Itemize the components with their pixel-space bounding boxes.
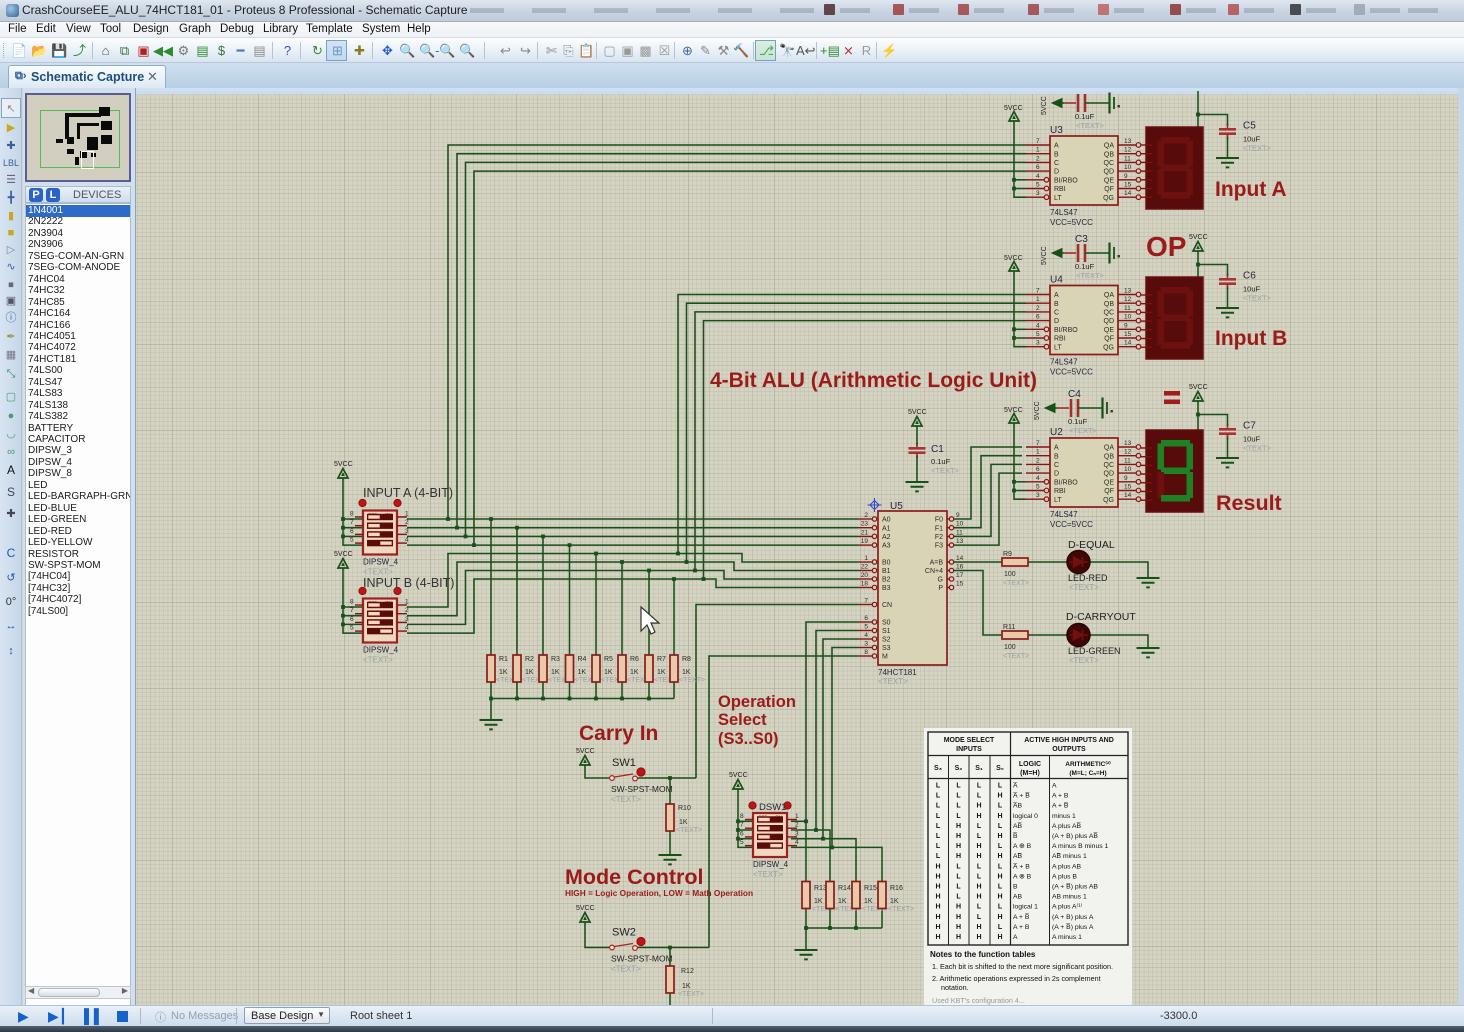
- svg-text:5VCC: 5VCC: [1189, 234, 1208, 241]
- svg-text:L: L: [977, 823, 982, 830]
- junction: [1012, 178, 1016, 182]
- junction: [594, 552, 598, 556]
- wire SW2 right: [636, 947, 709, 949]
- resistor R11 100: [1002, 624, 1029, 660]
- wire ls47 rail 426: [1014, 426, 1026, 499]
- svg-text:U5: U5: [890, 501, 903, 512]
- svg-text:L: L: [956, 793, 961, 800]
- svg-text:B3: B3: [882, 585, 891, 592]
- svg-text:QD: QD: [1104, 318, 1115, 325]
- DIP switch DSW1: [740, 802, 799, 879]
- svg-text:4: 4: [1036, 173, 1040, 180]
- svg-text:DIPSW_4: DIPSW_4: [363, 646, 399, 655]
- svg-text:Carry In: Carry In: [579, 722, 658, 745]
- svg-text:5: 5: [350, 625, 354, 632]
- svg-text:QD: QD: [1104, 169, 1115, 176]
- wire F2: [953, 464, 1022, 536]
- svg-text:13: 13: [1124, 138, 1132, 145]
- ground: [1137, 578, 1160, 587]
- svg-text:D: D: [1054, 471, 1059, 478]
- svg-text:16: 16: [956, 564, 964, 571]
- svg-text:H: H: [976, 884, 981, 891]
- svg-text:B0: B0: [882, 560, 891, 567]
- svg-text:<TEXT>: <TEXT>: [1076, 271, 1105, 280]
- svg-text:Result: Result: [1216, 491, 1282, 515]
- svg-text:11: 11: [956, 529, 963, 536]
- svg-text:74HCT181: 74HCT181: [878, 668, 917, 677]
- svg-text:5VCC: 5VCC: [1189, 384, 1208, 391]
- svg-text:0.1uF: 0.1uF: [1068, 417, 1088, 426]
- svg-text:C: C: [1054, 160, 1059, 167]
- svg-text:QC: QC: [1104, 310, 1115, 317]
- wire A4 row: [407, 544, 858, 546]
- svg-text:A3: A3: [882, 543, 891, 550]
- junction: [1012, 480, 1016, 484]
- svg-text:15: 15: [1124, 331, 1132, 338]
- svg-text:RBI: RBI: [1054, 488, 1066, 495]
- svg-text:A ⊗ B: A ⊗ B: [1013, 873, 1032, 880]
- wire r bottom 649: [648, 682, 650, 699]
- svg-text:5: 5: [740, 839, 744, 846]
- svg-text:R16: R16: [890, 885, 903, 892]
- svg-text:L: L: [998, 803, 1003, 810]
- BCD decoder U2 (74LS47): [1026, 427, 1141, 529]
- svg-text:11: 11: [1124, 457, 1131, 464]
- svg-text:S1: S1: [882, 628, 891, 635]
- wire B0 to U4: [678, 295, 1026, 554]
- svg-text:RBI: RBI: [1054, 186, 1066, 193]
- svg-text:<TEXT>: <TEXT>: [678, 991, 704, 998]
- svg-text:74LS47: 74LS47: [1050, 208, 1078, 217]
- wire A1 row: [407, 518, 858, 520]
- svg-text:QC: QC: [1104, 462, 1115, 469]
- svg-text:7: 7: [864, 598, 868, 605]
- svg-text:10: 10: [956, 521, 964, 528]
- junction: [455, 526, 459, 530]
- junction: [828, 926, 832, 930]
- svg-text:R10: R10: [678, 805, 691, 812]
- svg-text:B: B: [1054, 453, 1059, 460]
- wire ls47 rail 273.7: [1014, 274, 1026, 347]
- svg-text:SW1: SW1: [612, 757, 636, 769]
- svg-text:L: L: [977, 833, 982, 840]
- switch SW2 (SW-SPST-MOM): [610, 927, 673, 974]
- capacitor C4 decoupling: [1034, 389, 1113, 435]
- wire cap branch 264.5: [1198, 265, 1228, 277]
- svg-text:A̅: A̅: [1013, 782, 1018, 790]
- svg-text:H: H: [976, 803, 981, 810]
- svg-text:BI/RBO: BI/RBO: [1054, 479, 1078, 486]
- svg-text:1K: 1K: [604, 669, 613, 676]
- power 5VCC: [1009, 262, 1019, 275]
- svg-text:A: A: [1013, 934, 1018, 941]
- svg-text:H: H: [997, 813, 1002, 820]
- wire disp feed 114.5: [1197, 91, 1199, 127]
- resistor R10 1K: [666, 804, 702, 834]
- svg-text:15: 15: [1124, 182, 1132, 189]
- svg-text:A minus B minus 1: A minus B minus 1: [1052, 843, 1109, 850]
- wire DIPA stub 536.4: [343, 535, 363, 537]
- wire R bank bus: [490, 682, 492, 699]
- svg-text:H: H: [997, 873, 1002, 880]
- resistor R15 1K: [852, 882, 888, 914]
- svg-text:1: 1: [1036, 147, 1040, 154]
- svg-text:14: 14: [1124, 190, 1132, 197]
- resistor R4 1K: [566, 655, 601, 684]
- ground: [906, 482, 929, 491]
- junction: [736, 837, 740, 841]
- junction: [668, 776, 672, 780]
- svg-text:LT: LT: [1054, 195, 1062, 202]
- svg-text:C1: C1: [931, 444, 944, 455]
- svg-text:19: 19: [861, 538, 869, 545]
- junction: [594, 697, 598, 701]
- svg-text:Notes to the function tables: Notes to the function tables: [930, 950, 1036, 959]
- svg-text:1K: 1K: [814, 898, 823, 905]
- svg-text:QA: QA: [1104, 445, 1114, 452]
- svg-text:S₀: S₀: [996, 765, 1004, 772]
- svg-text:DIPSW_4: DIPSW_4: [363, 558, 399, 567]
- svg-text:2: 2: [405, 519, 409, 526]
- svg-text:DSW1: DSW1: [759, 802, 786, 813]
- wire F1: [953, 456, 1022, 528]
- svg-text:3: 3: [405, 528, 409, 535]
- svg-text:12: 12: [1124, 147, 1132, 154]
- power 5VCC: [338, 559, 348, 572]
- wire R7 pulldown: [648, 571, 650, 656]
- svg-text:R12: R12: [681, 968, 694, 975]
- junction: [464, 535, 468, 539]
- svg-text:R8: R8: [682, 656, 691, 663]
- wire R1 pulldown: [490, 519, 492, 655]
- svg-text:L: L: [977, 914, 982, 921]
- svg-text:R11: R11: [1003, 624, 1015, 631]
- resistor R13 1K: [802, 882, 838, 914]
- junction: [515, 526, 519, 530]
- wire DSW stub 821.3: [738, 820, 753, 822]
- svg-text:S3: S3: [882, 645, 891, 652]
- svg-text:11: 11: [1124, 305, 1131, 312]
- wire R8 pulldown: [673, 579, 675, 655]
- resistor R14 1K: [826, 882, 862, 914]
- svg-text:10uF: 10uF: [1243, 135, 1261, 144]
- 7-segment display Result display: [1141, 430, 1203, 512]
- svg-text:L: L: [936, 833, 941, 840]
- svg-text:1K: 1K: [630, 669, 639, 676]
- ground: [1216, 458, 1239, 467]
- svg-text:<TEXT>: <TEXT>: [1243, 294, 1272, 303]
- svg-text:H: H: [935, 863, 940, 870]
- svg-text:A2: A2: [882, 534, 891, 541]
- wire DIPA rail: [343, 481, 363, 545]
- svg-text:OP: OP: [1146, 231, 1186, 262]
- junction: [341, 526, 345, 530]
- svg-text:AB: AB: [1013, 894, 1023, 901]
- svg-text:11: 11: [1124, 155, 1131, 162]
- power 5VCC: [1193, 242, 1203, 255]
- svg-text:A=B: A=B: [930, 560, 944, 567]
- svg-text:4: 4: [405, 625, 409, 632]
- svg-text:7: 7: [1036, 440, 1040, 447]
- wire B0 route: [407, 554, 858, 608]
- svg-text:A + B̅: A + B̅: [1013, 913, 1030, 921]
- wire r bottom 622: [621, 682, 623, 699]
- power 5VCC: [1193, 392, 1203, 405]
- wire CN4: [953, 571, 1002, 636]
- svg-text:C: C: [1054, 310, 1059, 317]
- svg-text:H: H: [935, 934, 940, 941]
- svg-text:<TEXT>: <TEXT>: [1243, 144, 1272, 153]
- junction: [1196, 263, 1200, 267]
- ALU U5 (74HCT181): [858, 498, 964, 686]
- wire disp feed 264.5: [1197, 254, 1199, 277]
- wire cap gnd 414.5: [1227, 435, 1229, 458]
- svg-text:15: 15: [956, 581, 964, 588]
- svg-text:L: L: [956, 884, 961, 891]
- wire A3 row: [407, 535, 858, 537]
- wire B1 route: [407, 562, 858, 616]
- svg-text:1K: 1K: [682, 983, 691, 990]
- svg-text:6: 6: [350, 528, 354, 535]
- wire B1 to U4: [687, 303, 1027, 562]
- svg-text:Input A: Input A: [1215, 178, 1287, 201]
- wire DSW stub 830: [738, 829, 753, 831]
- resistor R16 1K: [878, 882, 914, 914]
- svg-text:7: 7: [350, 519, 354, 526]
- svg-text:4: 4: [795, 839, 799, 846]
- wire R bus: [491, 698, 674, 700]
- junction: [341, 535, 345, 539]
- capacitor 0.1uF decoupling: [1041, 93, 1120, 131]
- BCD decoder U3 (74LS47): [1026, 125, 1141, 227]
- svg-text:3: 3: [405, 616, 409, 623]
- svg-text:INPUT B (4-BIT): INPUT B (4-BIT): [363, 576, 454, 590]
- junction: [736, 819, 740, 823]
- svg-text:5VCC: 5VCC: [908, 409, 927, 416]
- svg-text:LT: LT: [1054, 344, 1062, 351]
- svg-text:G: G: [938, 577, 943, 584]
- svg-text:L: L: [956, 894, 961, 901]
- svg-text:1K: 1K: [838, 898, 847, 905]
- svg-text:5VCC: 5VCC: [1041, 96, 1048, 115]
- svg-text:H: H: [935, 904, 940, 911]
- wire DIPB stub 607: [343, 606, 363, 608]
- svg-text:1K: 1K: [864, 898, 873, 905]
- svg-text:B: B: [1054, 151, 1059, 158]
- resistor R5 1K: [592, 655, 627, 684]
- junction: [647, 697, 651, 701]
- svg-text:H: H: [997, 934, 1002, 941]
- svg-text:logical 0: logical 0: [1013, 813, 1038, 820]
- svg-text:H: H: [997, 793, 1002, 800]
- svg-text:(A + B̅) plus A: (A + B̅) plus A: [1052, 923, 1094, 931]
- svg-text:AB minus 1: AB minus 1: [1052, 894, 1087, 901]
- svg-text:13: 13: [1124, 440, 1132, 447]
- junction: [341, 614, 345, 618]
- svg-text:U3: U3: [1050, 125, 1063, 136]
- svg-text:<TEXT>: <TEXT>: [1069, 426, 1098, 435]
- junction: [568, 543, 572, 547]
- wire DSW row2: [791, 830, 830, 882]
- svg-text:U2: U2: [1050, 427, 1063, 438]
- svg-text:S2: S2: [882, 637, 891, 644]
- svg-text:L: L: [936, 803, 941, 810]
- wire CN4 gnd: [1090, 635, 1148, 648]
- junction: [685, 560, 689, 564]
- svg-text:1: 1: [795, 813, 799, 820]
- wire A=B: [953, 561, 1002, 563]
- svg-text:L: L: [977, 863, 982, 870]
- svg-text:R13: R13: [814, 885, 827, 892]
- junction: [541, 697, 545, 701]
- svg-text:L: L: [998, 843, 1003, 850]
- power 5VCC: [1009, 112, 1019, 125]
- wire DIPB rail: [343, 571, 363, 633]
- svg-text:H: H: [935, 873, 940, 880]
- svg-text:22: 22: [861, 564, 869, 571]
- svg-text:R9: R9: [1003, 551, 1012, 558]
- svg-text:A: A: [1054, 445, 1059, 452]
- svg-text:QG: QG: [1103, 497, 1114, 504]
- svg-text:F1: F1: [935, 525, 943, 532]
- power 5VCC: [338, 469, 348, 482]
- svg-text:A1: A1: [882, 525, 891, 532]
- svg-text:QG: QG: [1103, 344, 1114, 351]
- svg-text:L: L: [956, 813, 961, 820]
- junction: [489, 697, 493, 701]
- svg-text:3: 3: [1036, 190, 1040, 197]
- svg-text:12: 12: [1124, 296, 1132, 303]
- mouse cursor: [641, 607, 659, 634]
- svg-text:<TEXT>: <TEXT>: [1076, 121, 1105, 130]
- wire r bottom 674: [673, 682, 675, 699]
- svg-text:6: 6: [740, 830, 744, 837]
- junction: [672, 577, 676, 581]
- wire C1 top: [916, 429, 918, 447]
- svg-text:S₂: S₂: [955, 765, 963, 772]
- wire B2 to U4: [695, 312, 1026, 571]
- svg-text:A minus 1: A minus 1: [1052, 934, 1082, 941]
- DIP switch DIP A: [350, 499, 409, 576]
- svg-text:L: L: [936, 843, 941, 850]
- svg-text:Operation: Operation: [718, 693, 796, 711]
- svg-text:QB: QB: [1104, 301, 1114, 308]
- svg-text:CN: CN: [882, 602, 892, 609]
- wire R3 pulldown: [542, 536, 544, 655]
- svg-text:A0: A0: [882, 517, 891, 524]
- svg-text:H: H: [997, 914, 1002, 921]
- svg-text:B: B: [1054, 301, 1059, 308]
- wire DIPB stub 615.7: [343, 615, 363, 617]
- svg-text:D: D: [1054, 169, 1059, 176]
- junction: [830, 846, 834, 850]
- junction: [620, 697, 624, 701]
- capacitor C5 10uF: [1219, 121, 1272, 153]
- resistor R9 100: [1002, 551, 1029, 587]
- svg-text:74LS47: 74LS47: [1050, 510, 1078, 519]
- svg-text:(M=L; Cₙ=H): (M=L; Cₙ=H): [1069, 770, 1106, 777]
- svg-text:8: 8: [740, 813, 744, 820]
- wire R bottom 806: [805, 909, 807, 929]
- svg-text:A ⊕ B: A ⊕ B: [1013, 843, 1032, 850]
- wire A=B led: [1028, 561, 1067, 563]
- svg-text:QA: QA: [1104, 292, 1114, 299]
- svg-text:9: 9: [1124, 322, 1128, 329]
- svg-text:13: 13: [1124, 288, 1132, 295]
- svg-text:Input B: Input B: [1215, 327, 1287, 350]
- wire ls47 s5 273.7: [1014, 328, 1026, 330]
- svg-text:9: 9: [1124, 173, 1128, 180]
- svg-text:AB̅: AB̅: [1013, 852, 1023, 860]
- wire A4 to U3: [474, 171, 1026, 545]
- svg-text:A: A: [1054, 292, 1059, 299]
- wire R2 pulldown: [516, 528, 518, 655]
- svg-text:Mode Control: Mode Control: [565, 865, 704, 889]
- svg-text:A̅ + B̅: A̅ + B̅: [1013, 792, 1030, 800]
- svg-text:D-EQUAL: D-EQUAL: [1068, 539, 1115, 551]
- ground: [1216, 308, 1239, 317]
- svg-text:C: C: [1054, 462, 1059, 469]
- svg-text:L: L: [936, 823, 941, 830]
- wire M: [709, 656, 858, 948]
- svg-text:1K: 1K: [679, 819, 688, 826]
- wire CN4 led: [1028, 634, 1067, 636]
- svg-text:H: H: [956, 823, 961, 830]
- svg-text:R15: R15: [864, 885, 877, 892]
- svg-text:8: 8: [864, 649, 868, 656]
- svg-text:L: L: [936, 853, 941, 860]
- svg-text:R2: R2: [525, 656, 534, 663]
- wire S1: [816, 631, 858, 831]
- wire ls47 s6 124: [1014, 188, 1026, 190]
- svg-text:A plus AB̅: A plus AB̅: [1052, 822, 1082, 830]
- junction: [1196, 113, 1200, 117]
- svg-text:R7: R7: [657, 656, 666, 663]
- svg-text:L: L: [956, 783, 961, 790]
- svg-text:5VCC: 5VCC: [1004, 105, 1023, 112]
- svg-text:C6: C6: [1243, 271, 1256, 282]
- svg-text:R14: R14: [838, 885, 851, 892]
- wire ls47 rail 124: [1014, 124, 1026, 197]
- svg-text:B2: B2: [882, 577, 891, 584]
- junction: [1012, 489, 1016, 493]
- svg-text:B̅: B̅: [1013, 832, 1018, 840]
- 7-segment display OP display: [1141, 277, 1203, 359]
- wire cap gnd 114.5: [1227, 135, 1229, 158]
- junction: [515, 697, 519, 701]
- svg-text:100: 100: [1004, 571, 1016, 578]
- svg-text:3: 3: [864, 641, 868, 648]
- svg-text:<TEXT>: <TEXT>: [1003, 653, 1029, 660]
- junction: [341, 623, 345, 627]
- wire cap branch 114.5: [1198, 115, 1228, 127]
- svg-text:ACTIVE HIGH INPUTS AND: ACTIVE HIGH INPUTS AND: [1024, 737, 1114, 744]
- wire S2: [823, 639, 858, 839]
- svg-text:L: L: [998, 863, 1003, 870]
- power 5VCC: [580, 913, 590, 926]
- resistor R8 1K: [670, 655, 705, 684]
- svg-text:(S3..S0): (S3..S0): [718, 730, 779, 748]
- svg-text:A̅ + B: A̅ + B: [1013, 862, 1030, 870]
- wire DIPA stub 527.7: [343, 527, 363, 529]
- svg-text:R4: R4: [578, 656, 587, 663]
- junction: [676, 552, 680, 556]
- wire R bottom 856: [855, 909, 857, 929]
- svg-text:20: 20: [861, 572, 869, 579]
- svg-text:BI/RBO: BI/RBO: [1054, 327, 1078, 334]
- ground: [480, 720, 503, 729]
- svg-text:6: 6: [1036, 314, 1040, 321]
